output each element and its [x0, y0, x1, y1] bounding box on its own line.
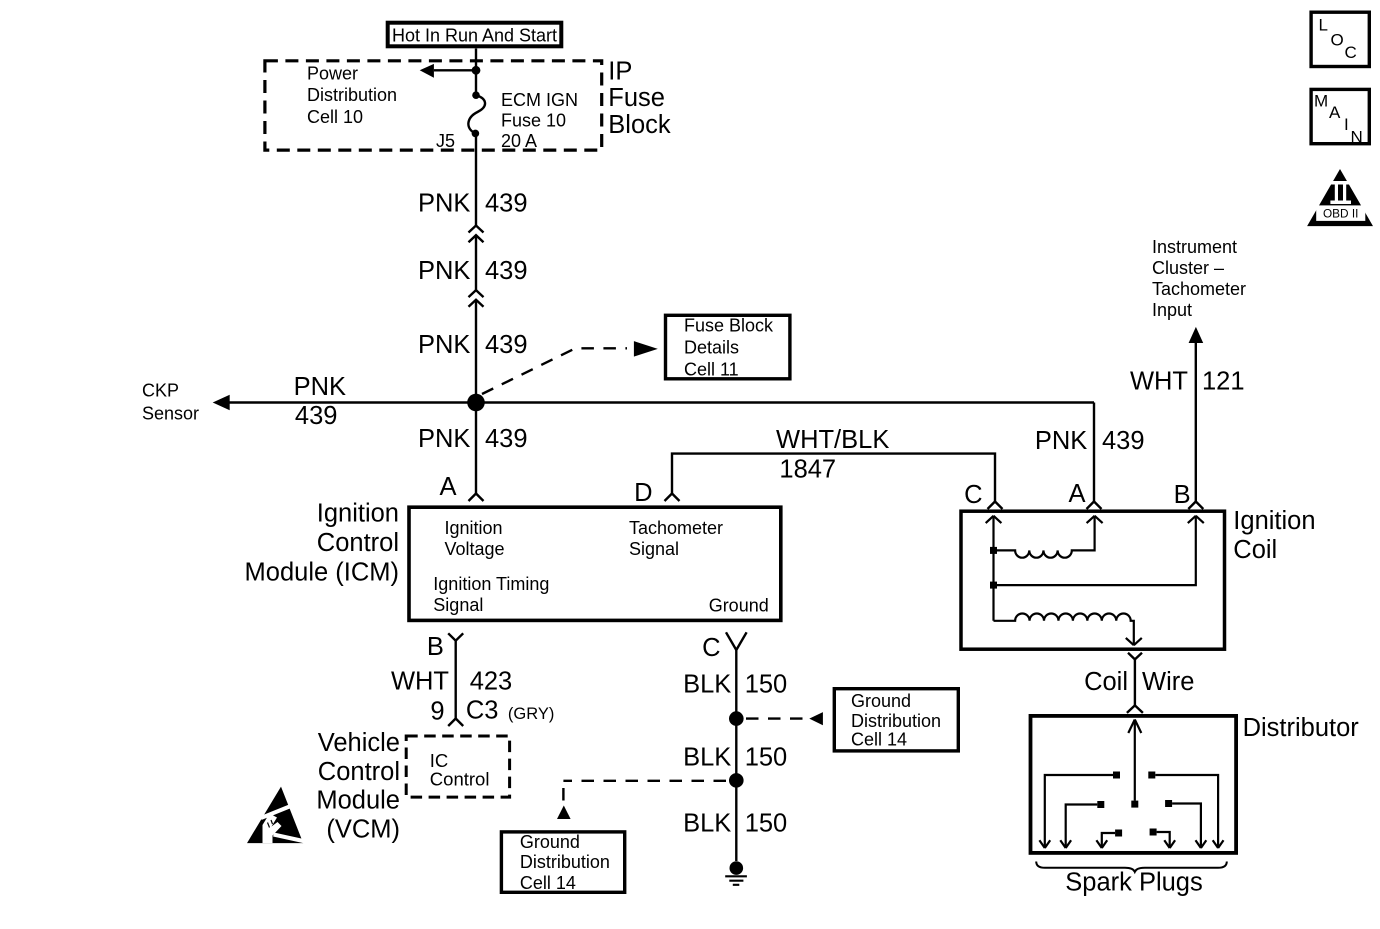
svg-text:Ground: Ground: [851, 691, 911, 711]
svg-text:B: B: [1174, 481, 1191, 509]
svg-text:Signal: Signal: [629, 539, 679, 559]
svg-text:Input: Input: [1152, 300, 1192, 320]
label: PNK 439 (3): [418, 331, 528, 359]
svg-text:439: 439: [485, 257, 528, 285]
label: fuse value ECM IGN Fuse 10 20 A: [501, 90, 578, 151]
component: Distributor box: [1031, 716, 1237, 853]
node: winding tap 2: [990, 582, 997, 589]
svg-text:Power: Power: [307, 64, 358, 84]
terminal D of ICM: [665, 494, 680, 502]
box: Ground Distribution Cell 14 (right): [834, 689, 958, 751]
label: Coil Wire: [1084, 668, 1194, 696]
wire: internal link to terminal B: [994, 516, 1196, 585]
terminal: coil tower output: [1128, 653, 1142, 660]
svg-text:1847: 1847: [779, 456, 836, 484]
node: cap terminal 2: [1148, 772, 1155, 779]
wire BLK 150 ground run: [735, 650, 737, 861]
svg-text:Control: Control: [318, 758, 400, 786]
box: Fuse Block Details Cell 11: [666, 315, 790, 379]
arrow: internal up to terminal B: [1188, 516, 1204, 523]
label: Vehicle Control Module (VCM): [316, 729, 400, 843]
arrow: plug lead 6 tip: [1164, 840, 1175, 848]
connector: in-line splice chevrons 1: [469, 226, 484, 243]
svg-text:BLK: BLK: [683, 744, 731, 772]
fuse F10 ECM IGN 20A: [468, 91, 485, 137]
svg-text:439: 439: [1102, 427, 1145, 455]
wire PNK 439 segment 3: [475, 300, 477, 403]
wire: coil internal C lead: [992, 516, 994, 621]
svg-text:BLK: BLK: [683, 670, 731, 698]
box: Hot In Run And Start header: [388, 23, 562, 47]
label: pin 9 connector C3 (GRY): [430, 697, 554, 726]
node: main splice junction: [467, 394, 485, 412]
node: cap terminal 5: [1115, 830, 1122, 837]
svg-text:150: 150: [745, 670, 788, 698]
svg-text:Distribution: Distribution: [307, 85, 397, 105]
svg-text:Tachometer: Tachometer: [629, 518, 723, 538]
label: Instrument Cluster - Tachometer Input: [1152, 237, 1246, 320]
wire: horizontal PNK 439 bus to CKP sensor and ignition coil: [230, 401, 1095, 403]
label: WHT 121: [1130, 368, 1245, 396]
svg-text:150: 150: [745, 810, 788, 838]
svg-text:PNK: PNK: [418, 331, 470, 359]
svg-text:Fuse 10: Fuse 10: [501, 111, 566, 131]
wire: dashed reference to Ground Distribution Cell 14 (right): [746, 717, 807, 719]
svg-text:WHT/BLK: WHT/BLK: [776, 426, 889, 454]
node: primary winding tap 1: [990, 547, 997, 554]
svg-text:BLK: BLK: [683, 810, 731, 838]
brace: spark plugs group: [1036, 862, 1227, 872]
node: cap terminal 1: [1113, 772, 1120, 779]
svg-text:J5: J5: [436, 131, 455, 151]
arrow: plug lead 2 tip: [1213, 840, 1224, 848]
svg-text:A: A: [1329, 103, 1341, 122]
svg-text:PNK: PNK: [294, 373, 346, 401]
svg-text:Cell 14: Cell 14: [851, 730, 907, 750]
arrow: plug lead 1 tip: [1039, 840, 1050, 848]
symbol: ESD sensitive device: [247, 787, 310, 844]
wire: coil wire to distributor: [1134, 659, 1136, 705]
icon: MAIN page reference box: [1311, 89, 1369, 146]
arrow: from Ground Distribution box (points left): [809, 712, 823, 725]
wire: rotor feed: [1134, 720, 1136, 801]
wire WHT/BLK 1847 from ICM D to coil C: [672, 454, 995, 502]
node: cap terminal 4: [1165, 800, 1172, 807]
svg-text:C: C: [1345, 43, 1357, 62]
svg-text:IP: IP: [608, 58, 632, 86]
icon: LOC page reference box: [1311, 12, 1369, 66]
svg-text:Signal: Signal: [433, 595, 483, 615]
svg-text:Cell 11: Cell 11: [684, 360, 739, 380]
terminal: VCM IC Control input chevron: [448, 719, 463, 727]
wire: plug lead 3: [1066, 805, 1098, 849]
svg-text:C: C: [964, 481, 982, 509]
svg-text:Ignition: Ignition: [445, 518, 503, 538]
svg-text:Tachometer: Tachometer: [1152, 279, 1246, 299]
terminal A of ignition coil: [1087, 502, 1102, 510]
wire: branch to Power Distribution: [434, 69, 476, 71]
svg-text:PNK: PNK: [418, 257, 470, 285]
svg-text:Module: Module: [316, 787, 400, 815]
svg-text:439: 439: [485, 331, 528, 359]
svg-text:PNK: PNK: [418, 425, 470, 453]
wire: PNK 439 branch down to coil terminal A: [1093, 403, 1095, 502]
terminal: distributor cap input chevron: [1127, 705, 1143, 713]
svg-text:Details: Details: [684, 338, 739, 358]
component: Ignition Coil box: [961, 511, 1225, 649]
wire: dashed reference to Fuse Block Details: [482, 348, 627, 394]
svg-text:B: B: [427, 633, 444, 661]
arrow: internal up to terminal C: [986, 516, 1002, 523]
svg-text:A: A: [439, 473, 456, 501]
svg-text:Cell 14: Cell 14: [520, 873, 576, 893]
svg-text:D: D: [634, 479, 652, 507]
label: IP Fuse Block: [608, 58, 671, 140]
svg-text:Cluster –: Cluster –: [1152, 258, 1224, 278]
wire: plug lead 4: [1172, 804, 1201, 849]
arrow: plug lead 4 tip: [1196, 840, 1207, 848]
svg-text:Control: Control: [430, 769, 490, 790]
svg-text:Distributor: Distributor: [1243, 714, 1360, 742]
terminal B of ICM: [448, 633, 463, 640]
module: Ignition Control Module (ICM) box: [409, 507, 781, 620]
svg-text:Sensor: Sensor: [142, 404, 199, 424]
svg-text:Block: Block: [608, 111, 671, 139]
svg-text:Ground: Ground: [709, 596, 769, 616]
node: cap terminal 6: [1150, 829, 1157, 836]
label: BLK 150 (3): [683, 810, 787, 838]
wire: dashed reference to Ground Distribution Cell 14 (lower): [563, 781, 726, 803]
terminal A of ICM: [469, 494, 484, 502]
svg-text:Spark Plugs: Spark Plugs: [1065, 869, 1203, 897]
wire PNK 439 segment 1: [475, 137, 477, 226]
svg-text:ECM IGN: ECM IGN: [501, 90, 578, 110]
label: PNK 439 (2): [418, 257, 528, 285]
wire PNK 439 segment 4 to ICM terminal A: [475, 403, 477, 494]
svg-text:Fuse: Fuse: [608, 84, 665, 112]
wire: feed from Hot box down to fuse J5 node: [475, 49, 477, 93]
terminal C of ICM: [726, 632, 747, 650]
wire: plug lead 5: [1102, 833, 1115, 848]
inductor: coil primary winding: [994, 516, 1095, 558]
svg-text:C: C: [702, 634, 720, 662]
wire PNK 439 segment 2: [475, 235, 477, 290]
svg-text:PNK: PNK: [418, 190, 470, 218]
box: Ground Distribution Cell 14 (lower): [501, 832, 624, 893]
node: rotor center: [1131, 801, 1138, 808]
svg-text:150: 150: [745, 744, 788, 772]
label: PNK 439 (left bus): [294, 373, 346, 430]
wire: plug lead 1: [1045, 775, 1113, 848]
wire: plug lead 2: [1155, 775, 1218, 848]
svg-text:OBD II: OBD II: [1323, 207, 1358, 221]
svg-text:L: L: [1319, 16, 1328, 35]
arrow: plug lead 5 tip: [1096, 840, 1107, 848]
svg-text:N: N: [1351, 127, 1363, 146]
label: Ignition Control Module (ICM): [245, 500, 399, 587]
node: cap terminal 3: [1097, 801, 1104, 808]
svg-text:Wire: Wire: [1142, 668, 1194, 696]
label: PNK 439 (4): [418, 425, 528, 453]
svg-text:A: A: [1068, 480, 1085, 508]
block: IP Fuse Block dashed outline: [265, 61, 602, 150]
label: WHT 423: [391, 668, 512, 696]
label: PNK 439 (coil branch): [1035, 427, 1145, 455]
svg-text:Cell 10: Cell 10: [307, 107, 363, 127]
svg-text:Ignition: Ignition: [1233, 507, 1315, 535]
arrow: to Instrument Cluster: [1189, 327, 1204, 343]
wire WHT 423 from ICM B to VCM: [455, 641, 457, 719]
svg-text:423: 423: [470, 668, 513, 696]
svg-text:20 A: 20 A: [501, 131, 537, 151]
svg-text:I: I: [1344, 115, 1349, 134]
svg-text:(GRY): (GRY): [508, 705, 554, 723]
label: CKP Sensor: [142, 381, 199, 424]
svg-text:CKP: CKP: [142, 381, 179, 401]
module: VCM IC Control dashed box: [406, 736, 509, 797]
ground: chassis ground G: [725, 861, 747, 885]
svg-text:Ignition Timing: Ignition Timing: [433, 574, 549, 594]
svg-text:Module (ICM): Module (ICM): [245, 559, 399, 587]
svg-text:Ignition: Ignition: [317, 500, 399, 528]
svg-text:O: O: [1331, 31, 1344, 50]
svg-text:Coil: Coil: [1233, 536, 1277, 564]
svg-text:Voltage: Voltage: [445, 539, 505, 559]
svg-text:9: 9: [430, 698, 444, 726]
wire: plug lead 6: [1157, 832, 1170, 848]
svg-text:439: 439: [485, 425, 528, 453]
arrow: plug lead 3 tip: [1060, 840, 1071, 848]
svg-text:Distribution: Distribution: [520, 852, 610, 872]
node: ground splice 2: [729, 773, 744, 788]
label: PNK 439 (1): [418, 190, 528, 218]
svg-text:Coil: Coil: [1084, 668, 1128, 696]
connector: in-line splice chevrons 2: [469, 290, 484, 307]
svg-text:439: 439: [295, 402, 338, 430]
arrow: to Power Distribution Cell 10: [420, 64, 434, 78]
terminal B of ignition coil: [1188, 502, 1203, 510]
label: Ignition Coil: [1233, 507, 1315, 564]
svg-text:Distribution: Distribution: [851, 711, 941, 731]
svg-text:(VCM): (VCM): [326, 815, 400, 843]
svg-text:Hot In Run And Start: Hot In Run And Start: [392, 26, 557, 46]
arrow: internal up to terminal A: [1087, 516, 1103, 523]
svg-text:WHT: WHT: [1130, 368, 1188, 396]
label: BLK 150 (1): [683, 670, 787, 698]
inductor: coil secondary winding: [994, 613, 1134, 645]
arrow: from Ground Distribution box (points up): [557, 806, 571, 820]
svg-text:Control: Control: [317, 529, 399, 557]
svg-text:121: 121: [1202, 368, 1245, 396]
icon: OBD II emission symbol: [1307, 169, 1373, 226]
svg-text:439: 439: [485, 190, 528, 218]
label: Power Distribution Cell 10: [307, 64, 397, 128]
svg-text:Vehicle: Vehicle: [318, 729, 400, 757]
svg-text:C3: C3: [466, 697, 499, 725]
svg-text:Ground: Ground: [520, 832, 580, 852]
svg-text:M: M: [1314, 91, 1328, 110]
svg-text:Instrument: Instrument: [1152, 237, 1237, 257]
arrow: into Fuse Block Details box: [634, 341, 658, 357]
svg-text:PNK: PNK: [1035, 427, 1087, 455]
node: ground splice 1: [729, 711, 744, 726]
svg-text:WHT: WHT: [391, 668, 449, 696]
svg-text:Fuse Block: Fuse Block: [684, 316, 774, 336]
label: WHT/BLK 1847: [776, 426, 889, 484]
arrow: rotor feed up: [1128, 720, 1141, 734]
arrow: secondary output down: [1126, 638, 1142, 645]
label: BLK 150 (2): [683, 744, 787, 772]
wire WHT 121 to instrument cluster: [1195, 341, 1197, 502]
terminal C of ignition coil: [988, 502, 1003, 510]
arrow: to CKP Sensor: [213, 395, 230, 410]
node: junction at fuse input: [472, 66, 481, 75]
